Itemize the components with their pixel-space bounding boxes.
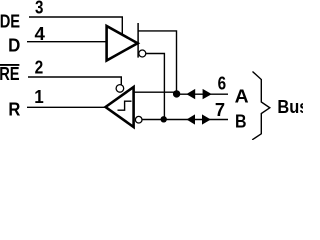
svg-text:R: R	[8, 100, 20, 120]
svg-text:1: 1	[34, 87, 44, 107]
svg-text:Bus: Bus	[277, 97, 303, 117]
svg-text:D: D	[8, 36, 20, 56]
svg-text:6: 6	[218, 74, 227, 94]
svg-text:A: A	[235, 87, 249, 107]
svg-text:B: B	[235, 112, 247, 132]
svg-text:7: 7	[215, 100, 225, 120]
svg-text:DE: DE	[0, 12, 20, 32]
svg-text:4: 4	[35, 24, 45, 44]
svg-text:3: 3	[35, 0, 43, 17]
svg-text:2: 2	[35, 58, 44, 78]
svg-text:RE: RE	[0, 64, 20, 84]
